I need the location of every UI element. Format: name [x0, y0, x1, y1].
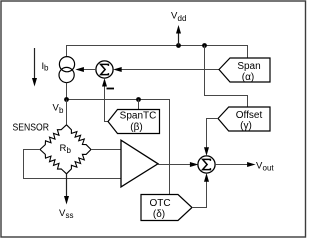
svg-text:SENSOR: SENSOR — [13, 122, 50, 133]
svg-text:b: b — [67, 146, 72, 155]
power symbol Vss — [59, 174, 74, 220]
wire Offset output down into S2 (arrow down) — [204, 119, 218, 156]
wire current source to Vb node — [66, 83, 68, 100]
svg-text:(γ): (γ) — [240, 121, 252, 132]
node dot SpanTC tap — [136, 97, 141, 102]
wire bridge left output to amp lower input — [24, 150, 122, 179]
node dot Offset branch tap — [202, 43, 207, 48]
current arrow Ib — [32, 48, 49, 87]
minus sign at S1 input — [107, 88, 115, 90]
wire S2 output to Vout (arrow right) — [215, 162, 256, 167]
summing junction S2 — [198, 156, 215, 173]
svg-text:ss: ss — [66, 211, 74, 220]
wire OTC output up into S2 (arrow up) — [192, 173, 209, 207]
svg-text:(β): (β) — [130, 122, 142, 133]
power symbol Vdd — [171, 11, 186, 46]
op-amp A1 — [121, 140, 158, 187]
resistor bridge Rb bottom-left arm — [40, 150, 67, 174]
svg-text:Offset: Offset — [236, 110, 263, 121]
summing junction S1 — [96, 61, 113, 78]
svg-text:(α): (α) — [242, 72, 254, 83]
svg-text:R: R — [60, 143, 67, 154]
node label Vb — [53, 103, 65, 115]
wire SpanTC output up into S1 (arrow up) — [102, 78, 108, 121]
svg-text:b: b — [59, 106, 64, 115]
node dot Vb — [64, 97, 69, 102]
svg-text:b: b — [44, 64, 49, 73]
wire bridge right output to amp upper input — [91, 149, 121, 151]
label Rb — [60, 143, 72, 155]
wire Vdd top rail — [67, 46, 248, 59]
svg-text:dd: dd — [178, 14, 187, 23]
resistor bridge Rb bottom-right arm — [67, 150, 92, 174]
block OTC (delta) — [141, 195, 192, 221]
svg-text:out: out — [263, 163, 275, 172]
wire bridge top stub — [66, 100, 68, 125]
wire amp output into S2 (arrow right) — [158, 162, 198, 167]
resistor bridge Rb top-left arm — [40, 125, 67, 150]
node dot Vdd arrow tap — [176, 43, 181, 48]
wire S1 output to current source (arrow left) — [75, 67, 96, 72]
block SpanTC (beta) — [108, 110, 160, 134]
svg-text:(δ): (δ) — [153, 209, 165, 220]
current source CS1 (two overlapping circles) — [59, 57, 75, 83]
wire Vb node rail — [67, 100, 170, 195]
svg-text:OTC: OTC — [149, 198, 170, 209]
svg-text:SpanTC: SpanTC — [120, 110, 157, 121]
wire SpanTC input branch — [138, 100, 140, 110]
svg-text:Span: Span — [237, 61, 260, 72]
node label Vout — [256, 160, 274, 172]
wire dot2 to Offset block input — [205, 46, 248, 108]
resistor bridge Rb top-right arm — [67, 125, 92, 150]
block Offset (gamma) — [218, 107, 270, 132]
wire Span output into S1 (arrow left) — [113, 67, 219, 72]
block Span (alpha) — [219, 58, 270, 83]
